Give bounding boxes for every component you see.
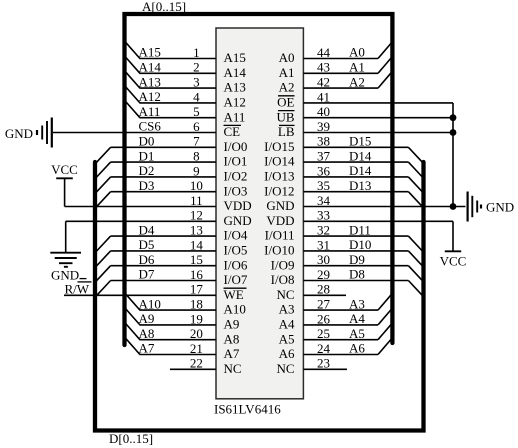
pin number 36 bbox=[317, 163, 331, 178]
svg-text:A2: A2 bbox=[349, 74, 365, 89]
pin name I/O14 (pin 37) bbox=[264, 154, 295, 169]
bus entry A6 bbox=[378, 339, 391, 354]
pin name A1 (pin 43) bbox=[279, 65, 295, 80]
pin name NC (pin 28) bbox=[276, 287, 294, 302]
bus entry D6 bbox=[96, 266, 110, 281]
ground label GND right bbox=[486, 200, 514, 215]
svg-text:9: 9 bbox=[193, 163, 200, 178]
svg-text:A4: A4 bbox=[349, 311, 365, 326]
svg-text:D[0..15]: D[0..15] bbox=[109, 431, 153, 446]
pin number 9 bbox=[193, 163, 200, 178]
wire pin 17 WE to R/W bbox=[64, 294, 216, 296]
pin number 1 bbox=[193, 45, 200, 60]
svg-text:VCC: VCC bbox=[440, 253, 467, 268]
svg-text:24: 24 bbox=[317, 341, 331, 356]
wire pin 22 NC stub bbox=[170, 368, 216, 370]
pin number 33 bbox=[317, 208, 330, 223]
wire pin 16 D7 bbox=[111, 280, 216, 282]
svg-text:VDD: VDD bbox=[266, 213, 294, 228]
wire pin 33 VDD to VCC bbox=[303, 220, 453, 222]
pin name A11 (pin 5) bbox=[224, 109, 246, 124]
wire pin 43 A1 bbox=[303, 72, 378, 74]
wire pin 12 GND bbox=[66, 220, 216, 222]
power label VCC right bbox=[440, 253, 467, 268]
svg-text:A7: A7 bbox=[224, 346, 240, 361]
pin number 2 bbox=[193, 60, 200, 75]
pin number 14 bbox=[190, 237, 204, 252]
svg-text:A15: A15 bbox=[224, 50, 246, 65]
op-amp-style IC body U1 IS61LV6416 bbox=[216, 28, 303, 399]
pin name I/O0 (pin 7) bbox=[224, 139, 248, 154]
bus entry D14 pin 37 bbox=[408, 162, 422, 177]
svg-text:13: 13 bbox=[190, 223, 203, 238]
pin number 17 bbox=[190, 282, 204, 297]
svg-text:D6: D6 bbox=[139, 252, 155, 267]
pin number 13 bbox=[190, 223, 203, 238]
pin name VDD (pin 11) bbox=[224, 198, 252, 213]
pin number 7 bbox=[193, 134, 200, 149]
svg-text:44: 44 bbox=[317, 45, 331, 60]
wire pin 14 D5 bbox=[111, 250, 216, 252]
svg-text:GND: GND bbox=[266, 198, 294, 213]
pin name A5 (pin 25) bbox=[279, 331, 295, 346]
wire pin 1 A15 bbox=[140, 58, 217, 60]
pin name A10 (pin 18) bbox=[224, 302, 246, 317]
svg-text:I/O0: I/O0 bbox=[224, 139, 248, 154]
svg-text:D15: D15 bbox=[349, 134, 371, 149]
svg-text:GND: GND bbox=[5, 126, 33, 141]
net label D1 (pin 8) bbox=[139, 148, 155, 163]
pin number 12 bbox=[190, 208, 203, 223]
svg-text:D5: D5 bbox=[139, 237, 155, 252]
svg-text:43: 43 bbox=[317, 60, 330, 75]
wire pin 15 D6 bbox=[111, 265, 216, 267]
overline CE bbox=[224, 124, 242, 126]
pin name I/O4 (pin 13) bbox=[224, 228, 248, 243]
svg-text:A9: A9 bbox=[139, 311, 155, 326]
pin name I/O9 (pin 30) bbox=[271, 257, 295, 272]
pin name CE (pin 6) bbox=[224, 124, 241, 139]
svg-text:A9: A9 bbox=[224, 317, 240, 332]
svg-text:D11: D11 bbox=[349, 222, 371, 237]
svg-text:20: 20 bbox=[190, 326, 203, 341]
svg-text:NC: NC bbox=[276, 287, 294, 302]
pin number 42 bbox=[317, 75, 330, 90]
svg-text:8: 8 bbox=[193, 149, 200, 164]
pin name I/O5 (pin 14) bbox=[224, 243, 248, 258]
svg-text:A0: A0 bbox=[349, 45, 365, 60]
bus entry D9 pin 30 bbox=[408, 266, 422, 281]
svg-text:10: 10 bbox=[190, 178, 203, 193]
net label R/W bbox=[65, 281, 90, 296]
svg-text:1: 1 bbox=[193, 45, 200, 60]
wire pin 7 D0 bbox=[111, 146, 216, 148]
pin number 26 bbox=[317, 311, 331, 326]
svg-text:33: 33 bbox=[317, 208, 330, 223]
svg-text:7: 7 bbox=[193, 134, 200, 149]
wire OE-UB-LB to GND vertical bbox=[452, 103, 454, 207]
svg-text:I/O14: I/O14 bbox=[264, 154, 295, 169]
bus entry A4 bbox=[378, 310, 391, 325]
svg-text:D8: D8 bbox=[349, 267, 365, 282]
svg-text:LB: LB bbox=[278, 124, 295, 139]
svg-text:I/O8: I/O8 bbox=[271, 272, 295, 287]
svg-text:A5: A5 bbox=[279, 331, 295, 346]
wire pin 9 D2 bbox=[111, 176, 216, 178]
wire pin 35 D13 bbox=[303, 191, 408, 193]
svg-text:25: 25 bbox=[317, 326, 330, 341]
wire pin 27 A3 bbox=[303, 309, 378, 311]
svg-text:6: 6 bbox=[193, 119, 200, 134]
pin name A9 (pin 19) bbox=[224, 317, 240, 332]
svg-text:28: 28 bbox=[317, 282, 330, 297]
pin number 6 bbox=[193, 119, 200, 134]
pin name A7 (pin 21) bbox=[224, 346, 240, 361]
net label A2 (pin 42) bbox=[349, 74, 365, 89]
svg-text:A3: A3 bbox=[349, 296, 365, 311]
net label D0 (pin 7) bbox=[139, 134, 155, 149]
svg-text:A12: A12 bbox=[224, 95, 246, 110]
svg-text:R/W: R/W bbox=[65, 281, 90, 296]
pin number 4 bbox=[193, 89, 200, 104]
pin number 28 bbox=[317, 282, 330, 297]
net label D2 (pin 9) bbox=[139, 163, 155, 178]
bus entry D3 bbox=[96, 192, 110, 207]
pin name I/O15 (pin 38) bbox=[264, 139, 294, 154]
pin number 8 bbox=[193, 149, 200, 164]
svg-text:38: 38 bbox=[317, 134, 330, 149]
svg-text:D14: D14 bbox=[349, 163, 372, 178]
wire pin 2 A14 bbox=[140, 72, 217, 74]
pin number 27 bbox=[317, 297, 331, 312]
svg-text:D0: D0 bbox=[139, 134, 155, 149]
pin name A6 (pin 24) bbox=[279, 346, 295, 361]
pin name VDD (pin 33) bbox=[266, 213, 294, 228]
bus entry D13 pin 35 bbox=[408, 192, 422, 207]
svg-text:3: 3 bbox=[193, 75, 200, 90]
net label A12 (pin 4) bbox=[139, 89, 161, 104]
svg-text:39: 39 bbox=[317, 119, 330, 134]
wire pin 19 A9 bbox=[140, 324, 217, 326]
bus entry A7 bbox=[126, 338, 140, 354]
pin number 31 bbox=[317, 237, 330, 252]
svg-text:22: 22 bbox=[190, 356, 203, 371]
svg-text:D14: D14 bbox=[349, 148, 372, 163]
net label A14 (pin 2) bbox=[139, 60, 162, 75]
pin name NC (pin 22) bbox=[224, 361, 242, 376]
wire pin 36 D14 bbox=[303, 176, 408, 178]
svg-text:D13: D13 bbox=[349, 178, 371, 193]
wire pin 3 A13 bbox=[140, 87, 217, 89]
ground label GND left bottom bbox=[51, 267, 79, 282]
wire pin 10 D3 bbox=[111, 191, 216, 193]
part name label IS61LV6416 bbox=[214, 402, 281, 417]
wire pin 5 A11 bbox=[140, 117, 217, 119]
pin number 43 bbox=[317, 60, 330, 75]
ground label tail bbox=[80, 278, 87, 280]
bus entry D2 bbox=[96, 177, 110, 192]
wire pin 30 D9 bbox=[303, 265, 408, 267]
pin number 40 bbox=[317, 104, 330, 119]
pin number 35 bbox=[317, 178, 330, 193]
net label D5 (pin 14) bbox=[139, 237, 155, 252]
svg-text:VCC: VCC bbox=[51, 162, 78, 177]
svg-text:A14: A14 bbox=[224, 65, 247, 80]
svg-text:21: 21 bbox=[190, 341, 203, 356]
wire pin 28 NC stub bbox=[303, 294, 346, 296]
pin name LB (pin 39) bbox=[278, 124, 295, 139]
pin name I/O2 (pin 9) bbox=[224, 169, 248, 184]
net label A6 (pin 24) bbox=[349, 341, 365, 356]
bus entry A14 bbox=[126, 57, 140, 73]
svg-text:I/O9: I/O9 bbox=[271, 257, 295, 272]
net label D13 (pin 35) bbox=[349, 178, 371, 193]
overline LB bbox=[279, 124, 295, 126]
bus entry D8 pin 29 bbox=[408, 281, 422, 296]
wire pin 26 A4 bbox=[303, 324, 378, 326]
net label A7 (pin 21) bbox=[139, 341, 155, 356]
pin name A0 (pin 44) bbox=[279, 50, 295, 65]
net label D10 (pin 31) bbox=[349, 237, 371, 252]
power symbol VCC right bbox=[445, 250, 461, 252]
wire pin 40 UB bbox=[303, 117, 453, 119]
svg-text:A12: A12 bbox=[139, 89, 161, 104]
svg-text:12: 12 bbox=[190, 208, 203, 223]
svg-text:D2: D2 bbox=[139, 163, 155, 178]
svg-text:29: 29 bbox=[317, 267, 330, 282]
net label D14 (pin 36) bbox=[349, 163, 372, 178]
svg-text:14: 14 bbox=[190, 237, 204, 252]
wire pin 4 A12 bbox=[140, 102, 217, 104]
svg-text:A15: A15 bbox=[139, 45, 161, 60]
svg-text:A11: A11 bbox=[139, 104, 161, 119]
svg-text:D3: D3 bbox=[139, 178, 155, 193]
wire pin 18 A10 bbox=[140, 309, 217, 311]
bus entry A11 bbox=[126, 102, 140, 118]
svg-text:D9: D9 bbox=[349, 252, 365, 267]
bus entry D7 bbox=[96, 281, 110, 296]
svg-text:I/O10: I/O10 bbox=[264, 243, 294, 258]
net label A8 (pin 20) bbox=[139, 326, 155, 341]
pin number 21 bbox=[190, 341, 203, 356]
pin name I/O3 (pin 10) bbox=[224, 183, 248, 198]
svg-text:4: 4 bbox=[193, 89, 200, 104]
svg-text:16: 16 bbox=[190, 267, 204, 282]
net label CS6 (pin 6) bbox=[139, 119, 162, 134]
wire VCC left to VDD pin 11 bbox=[64, 178, 66, 206]
bus entry D4 bbox=[96, 236, 110, 251]
pin number 11 bbox=[190, 193, 203, 208]
svg-text:IS61LV6416: IS61LV6416 bbox=[214, 402, 281, 417]
svg-text:D7: D7 bbox=[139, 267, 155, 282]
pin name I/O1 (pin 8) bbox=[224, 154, 248, 169]
bus entry A1 bbox=[378, 58, 391, 73]
wire pin 42 A2 bbox=[303, 87, 378, 89]
pin number 39 bbox=[317, 119, 330, 134]
net label A9 (pin 19) bbox=[139, 311, 155, 326]
svg-text:A10: A10 bbox=[139, 296, 161, 311]
svg-text:GND: GND bbox=[51, 267, 79, 282]
svg-text:NC: NC bbox=[224, 361, 242, 376]
svg-text:A3: A3 bbox=[279, 302, 295, 317]
wire pin 39 LB bbox=[303, 132, 453, 134]
svg-text:A5: A5 bbox=[349, 326, 365, 341]
svg-text:I/O3: I/O3 bbox=[224, 183, 248, 198]
pin name A13 (pin 3) bbox=[224, 80, 246, 95]
bus entry D5 bbox=[96, 251, 110, 266]
overline OE bbox=[278, 95, 295, 97]
pin name I/O13 (pin 36) bbox=[264, 169, 294, 184]
wire pin 8 D1 bbox=[111, 161, 216, 163]
overline W of R/W bbox=[78, 281, 92, 283]
pin number 44 bbox=[317, 45, 331, 60]
pin name I/O12 (pin 35) bbox=[264, 183, 294, 198]
pin number 5 bbox=[193, 104, 200, 119]
pin number 23 bbox=[317, 356, 330, 371]
svg-text:42: 42 bbox=[317, 75, 330, 90]
pin number 15 bbox=[190, 252, 203, 267]
svg-text:I/O5: I/O5 bbox=[224, 243, 248, 258]
svg-text:A1: A1 bbox=[279, 65, 295, 80]
wire pin 29 D8 bbox=[303, 280, 408, 282]
junction LB bbox=[450, 129, 457, 136]
ground symbol left bottom bbox=[50, 253, 81, 267]
wire pin 34 GND bbox=[303, 206, 465, 208]
pin number 25 bbox=[317, 326, 330, 341]
svg-text:A13: A13 bbox=[139, 74, 161, 89]
svg-text:27: 27 bbox=[317, 297, 331, 312]
ground symbol left at CS6 bbox=[37, 118, 52, 148]
pin number 37 bbox=[317, 149, 331, 164]
svg-text:CE: CE bbox=[224, 124, 241, 139]
svg-text:I/O2: I/O2 bbox=[224, 169, 248, 184]
wire pin 41 OE bbox=[303, 102, 453, 104]
pin name I/O10 (pin 31) bbox=[264, 243, 294, 258]
pin name A3 (pin 27) bbox=[279, 302, 295, 317]
power symbol VCC left bbox=[56, 177, 73, 179]
net label A10 (pin 18) bbox=[139, 296, 161, 311]
pin name I/O6 (pin 15) bbox=[224, 257, 248, 272]
pin number 16 bbox=[190, 267, 204, 282]
svg-text:A14: A14 bbox=[139, 60, 162, 75]
wire VDD pin33 down to VCC bbox=[452, 221, 454, 251]
bus entry A2 bbox=[378, 73, 391, 88]
svg-text:A10: A10 bbox=[224, 302, 246, 317]
pin name GND (pin 12) bbox=[224, 213, 252, 228]
wire pin 24 A6 bbox=[303, 354, 378, 356]
svg-text:32: 32 bbox=[317, 223, 330, 238]
pin name A4 (pin 26) bbox=[279, 317, 295, 332]
net label D9 (pin 30) bbox=[349, 252, 365, 267]
svg-text:GND: GND bbox=[486, 200, 514, 215]
svg-text:I/O4: I/O4 bbox=[224, 228, 248, 243]
net label D8 (pin 29) bbox=[349, 267, 365, 282]
svg-text:D1: D1 bbox=[139, 148, 155, 163]
bus A[0..15] bbox=[125, 14, 393, 345]
net label A1 (pin 43) bbox=[349, 60, 365, 75]
pin name A12 (pin 4) bbox=[224, 95, 246, 110]
wire pin 11 VDD to VCC bbox=[65, 206, 216, 208]
net label A13 (pin 3) bbox=[139, 74, 161, 89]
svg-text:A13: A13 bbox=[224, 80, 246, 95]
pin number 19 bbox=[190, 311, 203, 326]
pin number 38 bbox=[317, 134, 330, 149]
net label D7 (pin 16) bbox=[139, 267, 155, 282]
overline WE bbox=[224, 287, 247, 289]
pin name A8 (pin 20) bbox=[224, 331, 240, 346]
wire pin 23 NC stub bbox=[303, 368, 347, 370]
wire pin 44 A0 bbox=[303, 58, 378, 60]
bus entry D0 bbox=[96, 147, 110, 162]
pin number 20 bbox=[190, 326, 203, 341]
power label VCC left bbox=[51, 162, 78, 177]
net label D14 (pin 37) bbox=[349, 148, 372, 163]
svg-text:35: 35 bbox=[317, 178, 330, 193]
svg-text:WE: WE bbox=[224, 287, 244, 302]
svg-text:OE: OE bbox=[277, 95, 294, 110]
svg-text:11: 11 bbox=[190, 193, 203, 208]
net label A4 (pin 26) bbox=[349, 311, 365, 326]
svg-text:A1: A1 bbox=[349, 60, 365, 75]
bus entry D10 pin 31 bbox=[408, 251, 422, 266]
bus entry A9 bbox=[126, 309, 140, 325]
svg-text:5: 5 bbox=[193, 104, 200, 119]
net label D3 (pin 10) bbox=[139, 178, 155, 193]
wire pin 37 D14 bbox=[303, 161, 408, 163]
net label D[0..15] bbox=[109, 431, 153, 446]
svg-text:I/O6: I/O6 bbox=[224, 257, 248, 272]
ground symbol right bbox=[468, 192, 481, 222]
wire pin 21 A7 bbox=[140, 354, 217, 356]
pin name I/O11 (pin 32) bbox=[265, 228, 295, 243]
svg-text:A4: A4 bbox=[279, 317, 295, 332]
svg-text:40: 40 bbox=[317, 104, 330, 119]
bus entry D14 pin 36 bbox=[408, 177, 422, 192]
bus entry A15 bbox=[126, 42, 140, 58]
svg-text:A7: A7 bbox=[139, 341, 155, 356]
svg-text:18: 18 bbox=[190, 297, 203, 312]
junction UB bbox=[450, 114, 457, 121]
svg-text:A[0..15]: A[0..15] bbox=[142, 0, 186, 14]
svg-text:I/O12: I/O12 bbox=[264, 183, 294, 198]
wire pin 32 D11 bbox=[303, 235, 408, 237]
wire pin 38 D15 bbox=[303, 146, 408, 148]
svg-text:15: 15 bbox=[190, 252, 203, 267]
svg-text:23: 23 bbox=[317, 356, 330, 371]
pin name I/O8 (pin 29) bbox=[271, 272, 295, 287]
net label A11 (pin 5) bbox=[139, 104, 161, 119]
svg-text:UB: UB bbox=[276, 109, 294, 124]
net label A15 (pin 1) bbox=[139, 45, 161, 60]
wire pin 13 D4 bbox=[111, 235, 216, 237]
net label D6 (pin 15) bbox=[139, 252, 155, 267]
pin number 22 bbox=[190, 356, 203, 371]
svg-text:2: 2 bbox=[193, 60, 200, 75]
pin number 10 bbox=[190, 178, 203, 193]
svg-text:A8: A8 bbox=[139, 326, 155, 341]
net label D11 (pin 32) bbox=[349, 222, 371, 237]
net label A5 (pin 25) bbox=[349, 326, 365, 341]
bus D[0..15] bbox=[95, 162, 424, 431]
pin number 32 bbox=[317, 223, 330, 238]
wire pin 31 D10 bbox=[303, 250, 408, 252]
svg-text:VDD: VDD bbox=[224, 198, 252, 213]
wire pin 20 A8 bbox=[140, 339, 217, 341]
wire pin 6 CS6 to GND bbox=[53, 132, 216, 134]
bus entry A13 bbox=[126, 72, 140, 88]
junction GND net bbox=[450, 203, 457, 210]
net label A0 (pin 44) bbox=[349, 45, 365, 60]
